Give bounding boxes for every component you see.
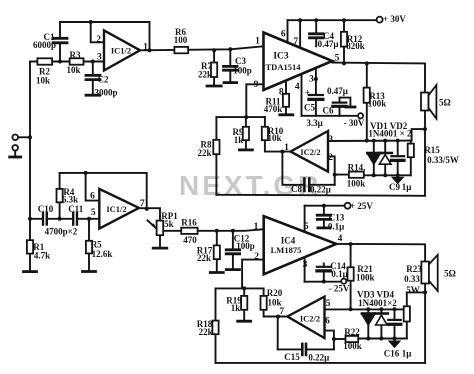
svg-text:C10: C10 [38,204,54,214]
svg-text:820k: 820k [346,41,365,51]
svg-text:IC2/2: IC2/2 [300,314,320,324]
svg-text:1: 1 [143,43,148,53]
svg-text:3: 3 [309,75,314,85]
svg-text:0.1μ: 0.1μ [331,269,347,279]
svg-text:R22: R22 [344,327,360,337]
svg-text:7: 7 [279,307,284,317]
svg-text:IC2/2: IC2/2 [300,147,320,157]
svg-text:6: 6 [325,316,330,326]
svg-text:- 30V: - 30V [344,118,365,128]
svg-text:4: 4 [338,234,343,244]
svg-text:0.47μ: 0.47μ [327,86,348,96]
svg-text:100p: 100p [236,241,255,251]
svg-text:0.33: 0.33 [404,274,420,284]
svg-text:6.3k: 6.3k [62,194,78,204]
svg-text:22k: 22k [199,327,213,337]
svg-text:7: 7 [140,199,145,209]
svg-text:5Ω: 5Ω [444,268,456,278]
svg-text:100k: 100k [368,99,387,109]
svg-text:1: 1 [284,143,289,153]
svg-text:470k: 470k [264,104,283,114]
svg-text:3.3μ: 3.3μ [306,118,322,128]
svg-text:C8: C8 [291,184,302,194]
svg-text:R3: R3 [70,50,81,60]
svg-text:3000p: 3000p [94,88,117,98]
svg-text:1: 1 [255,37,260,47]
svg-text:2: 2 [96,35,101,45]
svg-text:10k: 10k [36,76,50,86]
svg-text:R15: R15 [424,145,440,155]
svg-text:6: 6 [90,192,95,202]
svg-text:5W: 5W [406,285,420,295]
svg-text:10k: 10k [267,133,281,143]
svg-text:1k: 1k [231,303,241,313]
svg-text:4.7k: 4.7k [34,250,50,260]
svg-text:TDA1514: TDA1514 [266,62,302,72]
svg-text:22k: 22k [197,148,211,158]
svg-text:0.22μ: 0.22μ [310,184,331,194]
svg-text:4700p×2: 4700p×2 [45,226,78,236]
svg-text:7: 7 [293,37,298,47]
svg-text:3: 3 [328,135,333,145]
svg-text:10k: 10k [66,65,80,75]
svg-text:5: 5 [335,54,340,64]
svg-text:1μ: 1μ [402,348,412,358]
svg-text:C9: C9 [389,182,400,192]
svg-text:+: + [305,88,310,98]
svg-text:+ 25V: + 25V [350,201,373,211]
svg-text:IC3: IC3 [273,52,289,62]
svg-text:2: 2 [254,252,259,262]
svg-text:12.6k: 12.6k [92,249,113,259]
svg-text:100k: 100k [347,178,366,188]
svg-text:6: 6 [281,30,286,40]
svg-text:C5: C5 [304,103,315,113]
svg-text:3: 3 [97,53,102,63]
svg-text:9: 9 [254,80,259,90]
svg-text:100: 100 [174,35,188,45]
svg-text:5: 5 [326,299,331,309]
svg-text:5: 5 [91,208,96,218]
svg-text:0.1μ: 0.1μ [328,221,344,231]
svg-text:1N4001 × 2: 1N4001 × 2 [368,129,412,139]
svg-text:- 25V: - 25V [329,284,350,294]
svg-text:C3: C3 [235,56,246,66]
svg-text:C11: C11 [68,204,84,214]
svg-text:1N4001×2: 1N4001×2 [358,298,397,308]
svg-text:5: 5 [304,222,309,232]
svg-text:1: 1 [254,222,259,232]
svg-text:R14,: R14, [348,162,366,172]
svg-text:R16: R16 [181,217,197,227]
svg-text:100k: 100k [356,273,375,283]
svg-text:4: 4 [295,82,300,92]
svg-text:R20: R20 [267,288,283,298]
svg-text:0.33/5W: 0.33/5W [427,155,459,165]
svg-text:22k: 22k [197,253,211,263]
svg-text:LM1875: LM1875 [271,245,302,255]
svg-text:5Ω: 5Ω [439,98,451,108]
svg-text:C15: C15 [284,352,300,362]
svg-text:0.47μ: 0.47μ [318,39,339,49]
svg-text:470: 470 [183,235,197,245]
svg-text:IC1/2: IC1/2 [111,46,131,56]
svg-text:IC4: IC4 [281,236,296,246]
svg-text:IC1/2: IC1/2 [106,204,126,214]
svg-text:3: 3 [303,260,308,270]
svg-text:+ 30V: + 30V [383,14,406,24]
svg-text:R23: R23 [406,264,422,274]
svg-text:6000p: 6000p [33,40,56,50]
svg-text:1μ: 1μ [402,182,412,192]
svg-text:22k: 22k [198,70,212,80]
svg-text:100p: 100p [233,66,252,76]
svg-text:2: 2 [328,153,333,163]
svg-text:C16: C16 [384,348,400,358]
svg-text:C6: C6 [323,106,334,116]
svg-text:0.22μ: 0.22μ [308,352,329,362]
svg-text:5k: 5k [164,219,174,229]
svg-text:1k: 1k [234,135,244,145]
svg-text:C2: C2 [98,75,109,85]
svg-text:100k: 100k [343,341,362,351]
